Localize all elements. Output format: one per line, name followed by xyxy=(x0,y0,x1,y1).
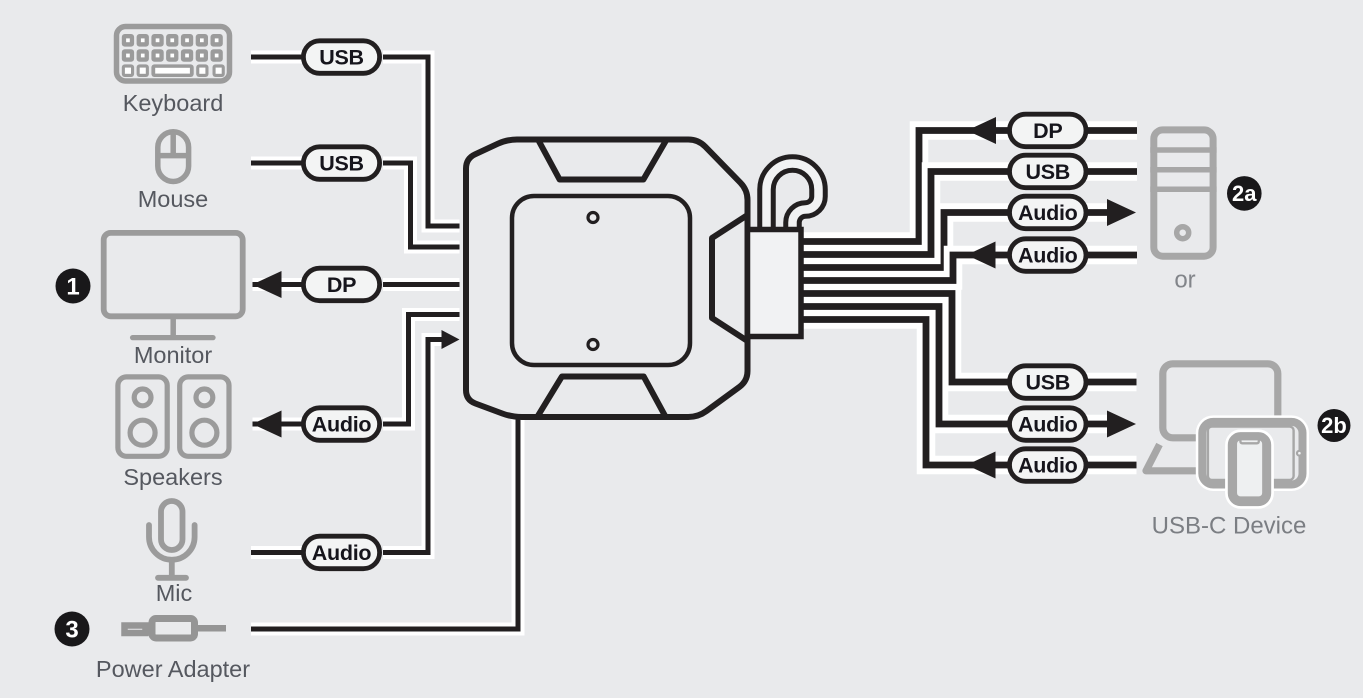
svg-text:Mic: Mic xyxy=(156,580,193,606)
pill USB mouse xyxy=(303,147,379,180)
wire USB-C device to Audio pill xyxy=(1085,456,1137,475)
arrowhead into KVM (mic audio) xyxy=(442,330,460,349)
pill Audio mic xyxy=(303,536,379,569)
badge 1 xyxy=(56,269,91,304)
arrowhead on Audio line (from USB-C) xyxy=(967,452,996,479)
pill Audio to PC xyxy=(1010,196,1087,229)
KVM bottom grip recess xyxy=(537,377,666,418)
laptop icon xyxy=(1146,364,1278,471)
svg-text:Audio: Audio xyxy=(312,412,372,436)
svg-text:3: 3 xyxy=(65,616,78,643)
phone icon xyxy=(1232,436,1268,502)
svg-text:DP: DP xyxy=(327,273,356,297)
pill USB keyboard xyxy=(303,41,379,74)
pill DP monitor xyxy=(303,268,379,301)
wire power adapter to KVM xyxy=(251,414,518,629)
wire PC to Audio pill xyxy=(1085,246,1137,265)
KVM right side crease xyxy=(712,215,748,341)
svg-text:Audio: Audio xyxy=(312,541,372,565)
svg-text:USB: USB xyxy=(1026,160,1071,184)
arrowhead on Audio line (from PC) xyxy=(967,242,996,269)
svg-text:Audio: Audio xyxy=(1018,243,1078,267)
wire USB pill to KVM (keyboard) xyxy=(383,57,460,226)
wire Audio pill toward PC xyxy=(1085,203,1114,222)
wire DP pill to PC xyxy=(1085,121,1137,140)
wire KVM to DP pill xyxy=(383,278,460,291)
KVM top plate xyxy=(512,196,690,365)
badge 2a xyxy=(1227,176,1262,211)
svg-text:Audio: Audio xyxy=(1018,453,1078,477)
cable strap hook xyxy=(767,164,819,234)
svg-text:USB-C Device: USB-C Device xyxy=(1152,512,1307,539)
svg-text:Mouse: Mouse xyxy=(138,186,209,212)
KVM top grip recess xyxy=(538,140,667,180)
wire USB pill to KVM (mouse) xyxy=(383,163,460,247)
wire mic to Audio pill xyxy=(251,546,303,559)
pill Audio to USB-C xyxy=(1010,408,1087,441)
svg-text:Audio: Audio xyxy=(1018,201,1078,225)
wire DP pill to monitor xyxy=(253,278,304,291)
mic icon xyxy=(149,501,195,578)
arrowhead to speakers xyxy=(253,411,282,438)
desktop PC tower icon xyxy=(1150,130,1216,256)
svg-text:1: 1 xyxy=(66,273,79,300)
svg-text:2a: 2a xyxy=(1232,181,1257,206)
arrowhead on DP line xyxy=(967,117,996,144)
arrowhead to monitor xyxy=(253,271,282,298)
svg-text:Power Adapter: Power Adapter xyxy=(96,656,250,682)
cable 7 connector to Audio pill (from USB-C) xyxy=(795,320,1009,466)
power adapter icon xyxy=(125,619,227,639)
svg-text:USB: USB xyxy=(319,151,364,175)
tablet icon xyxy=(1202,422,1302,485)
svg-text:USB: USB xyxy=(319,45,364,69)
arrowhead to USB-C (audio) xyxy=(1107,411,1136,438)
svg-text:or: or xyxy=(1174,266,1195,293)
cable connector block xyxy=(748,230,802,337)
pill USB PC xyxy=(1010,155,1087,188)
wire mouse to USB pill xyxy=(251,157,303,170)
pill Audio speakers xyxy=(303,408,379,441)
svg-text:Speakers: Speakers xyxy=(123,464,222,490)
wire Audio pill to KVM (mic) xyxy=(383,340,442,553)
arrowhead to PC (audio) xyxy=(1107,199,1136,226)
pill USB USB-C xyxy=(1010,366,1087,399)
badge 3 xyxy=(55,612,90,647)
wire KVM to Audio pill (speakers) xyxy=(383,315,460,425)
svg-text:Monitor: Monitor xyxy=(134,342,213,368)
svg-text:2b: 2b xyxy=(1321,413,1347,438)
svg-text:Audio: Audio xyxy=(1018,412,1078,436)
screw hole top xyxy=(588,213,598,223)
wire Audio pill toward USB-C device xyxy=(1085,415,1114,434)
cable 6 connector to Audio pill (to USB-C) xyxy=(795,307,1009,425)
screw hole bottom xyxy=(588,340,598,350)
svg-text:Keyboard: Keyboard xyxy=(123,90,224,116)
badge 2b xyxy=(1318,409,1351,442)
mouse icon xyxy=(158,132,189,182)
wire USB pill to USB-C device xyxy=(1085,373,1137,392)
pill Audio from PC xyxy=(1010,239,1087,271)
cable 3 connector to Audio pill (to PC) xyxy=(795,213,1009,268)
wire keyboard to USB pill xyxy=(251,51,303,64)
svg-text:USB: USB xyxy=(1026,370,1071,394)
keyboard icon xyxy=(117,27,230,82)
wire USB pill to PC xyxy=(1085,162,1137,181)
pill DP PC xyxy=(1010,114,1087,147)
KVM switch body outline xyxy=(466,140,748,418)
speakers icon xyxy=(118,377,229,456)
cable 5 connector to USB pill (USB-C) xyxy=(795,294,1009,383)
pill Audio from USB-C xyxy=(1010,449,1087,482)
cable 1 connector to DP pill xyxy=(795,131,1009,242)
wire Audio pill to speakers xyxy=(253,418,304,431)
cable 2 connector to USB pill xyxy=(795,172,1009,255)
cable 4 connector to Audio pill (from PC) xyxy=(795,255,1009,281)
svg-text:DP: DP xyxy=(1033,119,1062,143)
monitor icon xyxy=(104,233,243,338)
